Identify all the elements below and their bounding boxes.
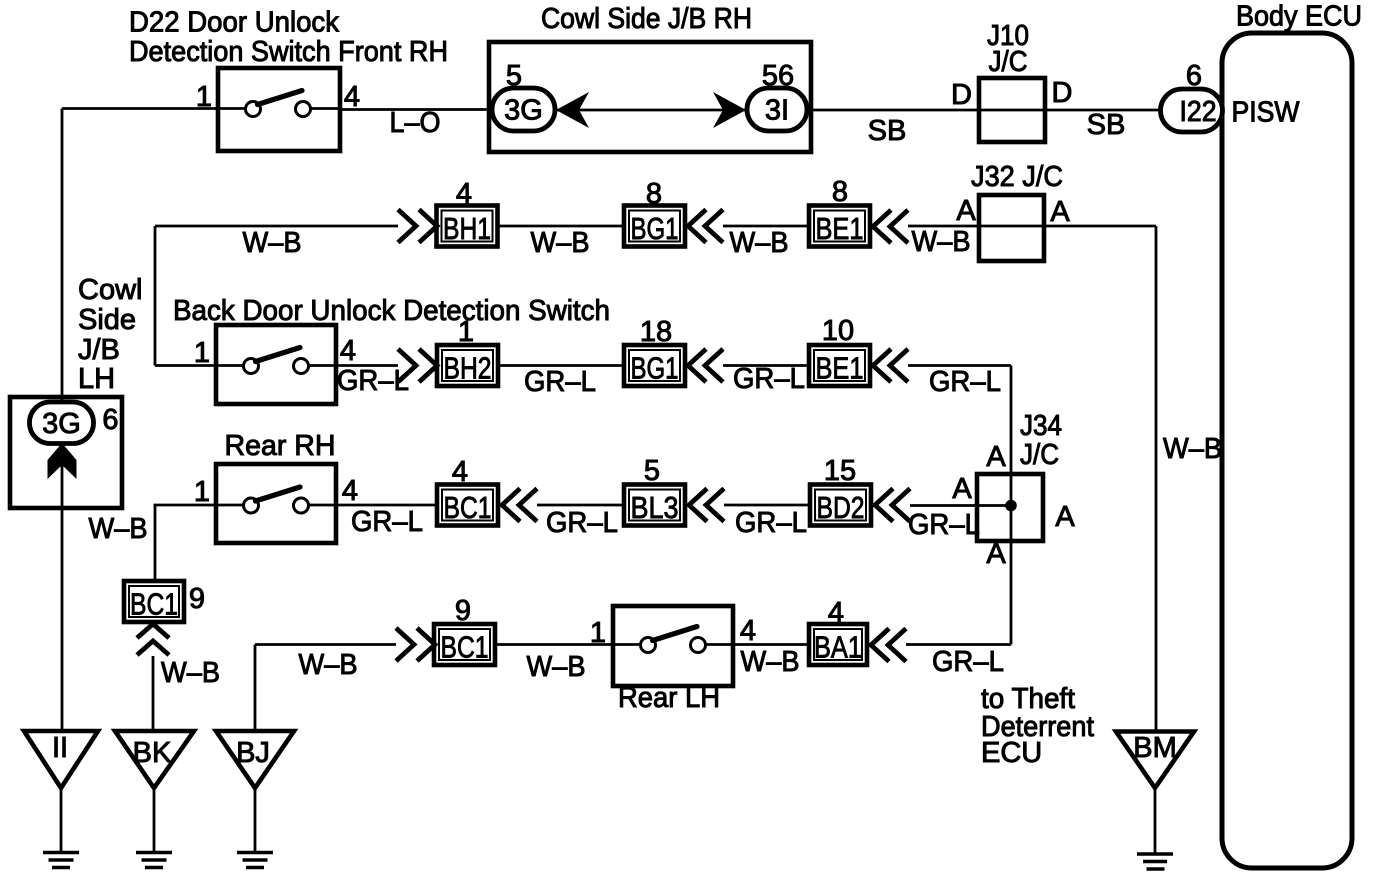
svg-text:LH: LH [78, 363, 115, 395]
wire: vertical from arrows down to BK ground, W-B [152, 656, 155, 732]
svg-text:D: D [1052, 77, 1073, 109]
wire: BH2 to BG1 row3, GR-L [498, 364, 624, 367]
connector BG1 pin 18 row3 [624, 345, 685, 386]
wire: corner from Rear RH pin1 left then down to BC1 [155, 505, 216, 581]
svg-text:3G: 3G [504, 95, 543, 127]
pin 1 of Rear RH [194, 476, 210, 508]
wire: BG1 arrows to BE1 row3, GR-L [723, 364, 809, 367]
svg-text:4: 4 [456, 178, 472, 210]
svg-text:3I: 3I [765, 95, 789, 127]
wire color label GR-L row4 right-mid [735, 507, 807, 539]
pin 56 label [762, 60, 794, 92]
pin 8 label above BG1 [646, 178, 662, 210]
svg-text:BD2: BD2 [817, 490, 865, 525]
wire: vertical through J34 J/C from row3 to Rear LH row [1010, 366, 1013, 645]
wire color label W-B before J32 [912, 226, 971, 258]
svg-text:W–B: W–B [912, 226, 971, 258]
wire: Rear LH pin4 to BA1, W-B [733, 643, 809, 646]
connector BL3 pin 5 [624, 485, 685, 526]
wire: BE1 arrows right then down to J34, GR-L [908, 364, 1011, 367]
wire color label W-B left vertical [89, 513, 148, 545]
svg-text:BM: BM [1133, 732, 1177, 764]
wire color label W-B row2 mid [531, 227, 590, 259]
connector BG1 pin 8 row2 [624, 206, 685, 247]
wire: BG1 arrows to BE1, W-B [723, 225, 809, 228]
svg-text:BG1: BG1 [631, 211, 679, 246]
wire: BE1 arrows through J32 J/C to right corner, W-B [908, 225, 1156, 228]
svg-text:I22: I22 [1180, 96, 1217, 128]
svg-text:4: 4 [452, 456, 468, 488]
svg-text:GR–L: GR–L [929, 366, 1001, 398]
male arrows into BC1 row5 [396, 628, 435, 661]
svg-text:3G: 3G [42, 408, 81, 440]
pin 5 label above BL3 [644, 455, 660, 487]
label: Cowl Side J/B LH [78, 274, 142, 395]
svg-text:J34: J34 [1020, 410, 1062, 442]
svg-text:J/B: J/B [78, 334, 120, 366]
svg-text:W–B: W–B [1163, 433, 1222, 465]
wire: BC1 to Rear LH pin1, W-B [495, 643, 613, 646]
svg-text:ECU: ECU [981, 737, 1042, 769]
wire color label GR-L after Back Door switch [337, 365, 409, 397]
wire: BJ triangle to ground [254, 788, 257, 852]
svg-text:GR–L: GR–L [733, 363, 805, 395]
svg-text:GR–L: GR–L [524, 366, 596, 398]
node PISW [1232, 97, 1301, 129]
svg-text:Cowl: Cowl [78, 274, 142, 306]
svg-text:W–B: W–B [527, 651, 586, 683]
wire color label GR-L after Rear RH [351, 506, 423, 538]
svg-text:Rear RH: Rear RH [225, 430, 336, 462]
connector BC1 pin 4 row4 [437, 485, 498, 526]
wire: BA1 arrows right then up to J34, GR-L [906, 643, 1011, 646]
svg-text:BK: BK [133, 737, 172, 769]
svg-text:6: 6 [102, 404, 118, 436]
svg-text:BJ: BJ [236, 737, 270, 769]
connector 3G pin 5 [492, 88, 555, 131]
svg-text:Detection Switch Front RH: Detection Switch Front RH [129, 36, 448, 68]
svg-text:9: 9 [455, 595, 471, 627]
wire color label W-B above BK [161, 657, 220, 689]
label: Back Door Unlock Detection Switch [173, 295, 610, 327]
svg-text:1: 1 [458, 316, 474, 348]
wire color label GR-L row3 right-mid [733, 363, 805, 395]
pin A right of J34 [1055, 501, 1075, 533]
wire: between 3G and 3I inside Cowl Side J/B RH [555, 109, 747, 112]
svg-text:J/C: J/C [989, 46, 1028, 78]
wire: BH1 to BG1, W-B [498, 225, 625, 228]
svg-text:A: A [956, 195, 976, 227]
wire: BJ corner to BC1 arrows row5, W-B [255, 643, 396, 646]
switch D22 Door Unlock Detection Switch Front RH [218, 68, 340, 151]
svg-text:W–B: W–B [730, 227, 789, 259]
svg-text:4: 4 [344, 81, 360, 113]
svg-text:GR–L: GR–L [932, 646, 1004, 678]
ground triangle BJ [216, 731, 294, 788]
wire color label W-B row2 right-mid [730, 227, 789, 259]
pin 4 of Back Door switch [340, 335, 356, 367]
wire: BK triangle to ground [153, 788, 156, 852]
svg-text:9: 9 [189, 583, 205, 615]
svg-text:A: A [986, 441, 1006, 473]
svg-text:BE1: BE1 [816, 351, 864, 386]
svg-text:II: II [52, 732, 68, 764]
female arrows after BE1 row3 [873, 349, 908, 382]
svg-text:10: 10 [822, 315, 854, 347]
connector BC1 pin 9 row5 [434, 624, 495, 665]
svg-text:GR–L: GR–L [546, 507, 618, 539]
svg-text:GR–L: GR–L [735, 507, 807, 539]
svg-text:8: 8 [646, 178, 662, 210]
wire: left vertical to Back Door switch pin1 [155, 364, 216, 367]
female arrows after BC1 row4 [502, 489, 537, 522]
female arrows after BG1 row2 [688, 210, 723, 243]
switch Back Door Unlock Detection Switch [216, 325, 336, 404]
wire: D22 pin4 to Cowl Side J/B RH 3G [340, 108, 492, 111]
connector BC1 pin 9 left column [124, 581, 184, 622]
svg-text:D22 Door Unlock: D22 Door Unlock [129, 7, 339, 39]
male arrows into BH2 [398, 349, 437, 382]
svg-text:18: 18 [640, 316, 672, 348]
ground symbol under BK [136, 853, 172, 868]
svg-text:BC1: BC1 [444, 490, 492, 525]
female arrows after BD2 [875, 489, 910, 522]
junction connector J32 J/C [971, 161, 1063, 261]
wire color label L-O [390, 107, 441, 139]
connector I22 pin 6 [1161, 89, 1223, 132]
female arrows after BL3 [689, 489, 724, 522]
svg-text:4: 4 [740, 615, 756, 647]
pin A bottom of J34 [986, 538, 1006, 570]
svg-text:56: 56 [762, 60, 794, 92]
label Body ECU [1236, 1, 1362, 33]
svg-text:L–O: L–O [390, 107, 441, 139]
pin 9 label right of BC1 [189, 583, 205, 615]
connector 3G pin 6 in Cowl Side J/B LH [30, 402, 94, 444]
svg-text:W–B: W–B [531, 227, 590, 259]
svg-text:Cowl Side J/B RH: Cowl Side J/B RH [541, 3, 752, 35]
label: D22 Door Unlock Detection Switch Front RH [129, 7, 448, 69]
female arrows after BA1 [871, 629, 906, 662]
svg-text:SB: SB [868, 115, 907, 147]
pin 15 label above BD2 [824, 455, 856, 487]
svg-text:1: 1 [196, 81, 212, 113]
wire color label W-B row2 left [243, 227, 302, 259]
connector BE1 pin 8 row2 [809, 206, 870, 247]
svg-text:A: A [986, 538, 1006, 570]
svg-text:W–B: W–B [299, 649, 358, 681]
female arrows after BE1 row2 [873, 210, 908, 243]
pin 6 label [1186, 60, 1202, 92]
pin A left of J34 [952, 473, 972, 505]
wire color label GR-L row3 right [929, 366, 1001, 398]
connector BA1 pin 4 [809, 624, 867, 665]
pin 4 of Rear LH [740, 615, 756, 647]
pin A top of J34 [986, 441, 1006, 473]
svg-text:BC1: BC1 [130, 587, 178, 622]
wire: row2 W-B from left vertical to BH1 arrows [155, 225, 398, 228]
svg-text:W–B: W–B [161, 657, 220, 689]
svg-text:W–B: W–B [89, 513, 148, 545]
pin A right of J32 [1050, 196, 1070, 228]
wire color label W-B row5 mid [527, 651, 586, 683]
svg-text:A: A [1050, 196, 1070, 228]
ECU block Body ECU [1222, 33, 1352, 868]
pin 8 label above BE1 [832, 176, 848, 208]
svg-text:1: 1 [590, 617, 606, 649]
wire: BC1 arrows to BL3, GR-L [537, 504, 624, 507]
svg-text:A: A [952, 473, 972, 505]
svg-text:BH1: BH1 [443, 211, 491, 246]
junction connector J10 J/C [979, 20, 1045, 142]
wire color label W-B after Rear LH [741, 646, 800, 678]
ground symbol under BJ [237, 853, 273, 868]
svg-text:D: D [951, 79, 972, 111]
wire color label W-B row5 left [299, 649, 358, 681]
male arrows into BH1 [398, 210, 437, 243]
svg-text:5: 5 [506, 60, 522, 92]
svg-text:J/C: J/C [1020, 439, 1059, 471]
svg-text:5: 5 [644, 455, 660, 487]
pin 4 label above BA1 [828, 597, 844, 629]
svg-text:PISW: PISW [1232, 97, 1301, 129]
svg-text:1: 1 [194, 476, 210, 508]
wire: BD2 arrows into J34 junction, GR-L [910, 504, 1011, 507]
pin 4 of D22 [344, 81, 360, 113]
svg-text:BE1: BE1 [816, 211, 864, 246]
pin D right of J10 [1052, 77, 1073, 109]
svg-text:4: 4 [342, 475, 358, 507]
svg-text:BC1: BC1 [441, 630, 489, 665]
wire: 3I to J10 J/C to I22, label SB [806, 109, 1165, 112]
svg-text:Side: Side [78, 304, 136, 336]
pin 1 label above BH2 [458, 316, 474, 348]
label: to Theft Deterrent ECU [981, 683, 1094, 769]
connector BH2 pin 1 [437, 345, 498, 386]
svg-text:8: 8 [832, 176, 848, 208]
ground triangle II [24, 731, 98, 788]
wire: II triangle to ground [60, 788, 63, 852]
wire color label GR-L row5 [932, 646, 1004, 678]
pin 4 label above BC1 row4 [452, 456, 468, 488]
wire color label W-B on vertical to BM [1163, 433, 1222, 465]
connector BE1 pin 10 row3 [809, 345, 870, 386]
svg-text:1: 1 [194, 337, 210, 369]
svg-text:A: A [1055, 501, 1075, 533]
pin 1 of D22 [196, 81, 212, 113]
junction dot inside J34 [1005, 500, 1017, 512]
label: Cowl Side J/B RH [541, 3, 752, 35]
junction block Cowl Side J/B LH [10, 397, 122, 508]
pin 10 label above BE1 row3 [822, 315, 854, 347]
switch Rear LH [613, 606, 733, 686]
svg-text:15: 15 [824, 455, 856, 487]
wire: BL3 arrows to BD2, GR-L [724, 504, 810, 507]
black ribbon arrow up into 3G [48, 443, 77, 479]
pin 6 label in Cowl Side J/B LH [102, 404, 118, 436]
svg-text:BL3: BL3 [631, 490, 679, 525]
ground triangle BK [115, 731, 194, 788]
label: Rear LH [618, 682, 720, 714]
wire: Back Door pin4 to BH2 arrows, GR-L [336, 364, 398, 367]
wire color label GR-L row3 mid [524, 366, 596, 398]
wire: vertical W-B from J32 corner down to BM ground [1155, 226, 1158, 732]
black arrow left into 3G [556, 92, 589, 128]
connector BH1 pin 4 [437, 206, 498, 247]
svg-text:Body ECU: Body ECU [1236, 1, 1362, 33]
wire: BM triangle to ground [1154, 788, 1157, 854]
svg-text:BG1: BG1 [631, 351, 679, 386]
svg-text:Back Door Unlock Detection Swi: Back Door Unlock Detection Switch [173, 295, 610, 327]
svg-text:4: 4 [828, 597, 844, 629]
connector 3I pin 56 [747, 88, 807, 131]
connector BD2 pin 15 [810, 485, 871, 526]
ground symbol under II [43, 853, 79, 868]
pin D left of J10 [951, 79, 972, 111]
female arrows up into BC1 left column [137, 624, 169, 655]
svg-text:W–B: W–B [741, 646, 800, 678]
pin A left of J32 [956, 195, 976, 227]
pin 4 of Rear RH [342, 475, 358, 507]
svg-text:4: 4 [340, 335, 356, 367]
wire: left vertical from row2 down to Back Door switch row [154, 226, 157, 366]
svg-text:Rear LH: Rear LH [618, 682, 720, 714]
pin 4 label above BH1 [456, 178, 472, 210]
female arrows after BG1 row3 [688, 349, 723, 382]
wire color label GR-L row4 mid [546, 507, 618, 539]
pin 5 label [506, 60, 522, 92]
junction connector J34 J/C [977, 410, 1062, 541]
pin 1 of Back Door switch [194, 337, 210, 369]
wire color label GR-L row4 right [908, 509, 980, 541]
svg-text:GR–L: GR–L [351, 506, 423, 538]
label: Rear RH [225, 430, 336, 462]
svg-text:BH2: BH2 [444, 351, 492, 386]
svg-text:J32 J/C: J32 J/C [971, 161, 1063, 193]
pin 18 label above BG1 row3 [640, 316, 672, 348]
svg-text:W–B: W–B [243, 227, 302, 259]
black arrow right into 3I [713, 92, 746, 128]
ground triangle BM [1116, 732, 1194, 789]
wire: left vertical drop from D22 pin1 down to ground II through Cowl Side J/B LH [61, 109, 64, 732]
ground symbol under BM [1137, 854, 1173, 869]
svg-text:6: 6 [1186, 60, 1202, 92]
junction block Cowl Side J/B RH [489, 42, 811, 152]
wire color label SB right of J10 [1087, 109, 1126, 141]
wire: pin1 of D22 switch to left vertical [62, 107, 218, 110]
wire color label SB left of J10 [868, 115, 907, 147]
svg-text:GR–L: GR–L [908, 509, 980, 541]
pin 9 label above BC1 row5 [455, 595, 471, 627]
wire: Rear RH pin4 to BC1, GR-L [336, 504, 437, 507]
pin 1 of Rear LH [590, 617, 606, 649]
switch Rear RH [216, 464, 336, 543]
svg-text:BA1: BA1 [814, 630, 862, 665]
svg-text:SB: SB [1087, 109, 1126, 141]
wire: vertical from BJ up to Rear LH row [254, 645, 257, 732]
